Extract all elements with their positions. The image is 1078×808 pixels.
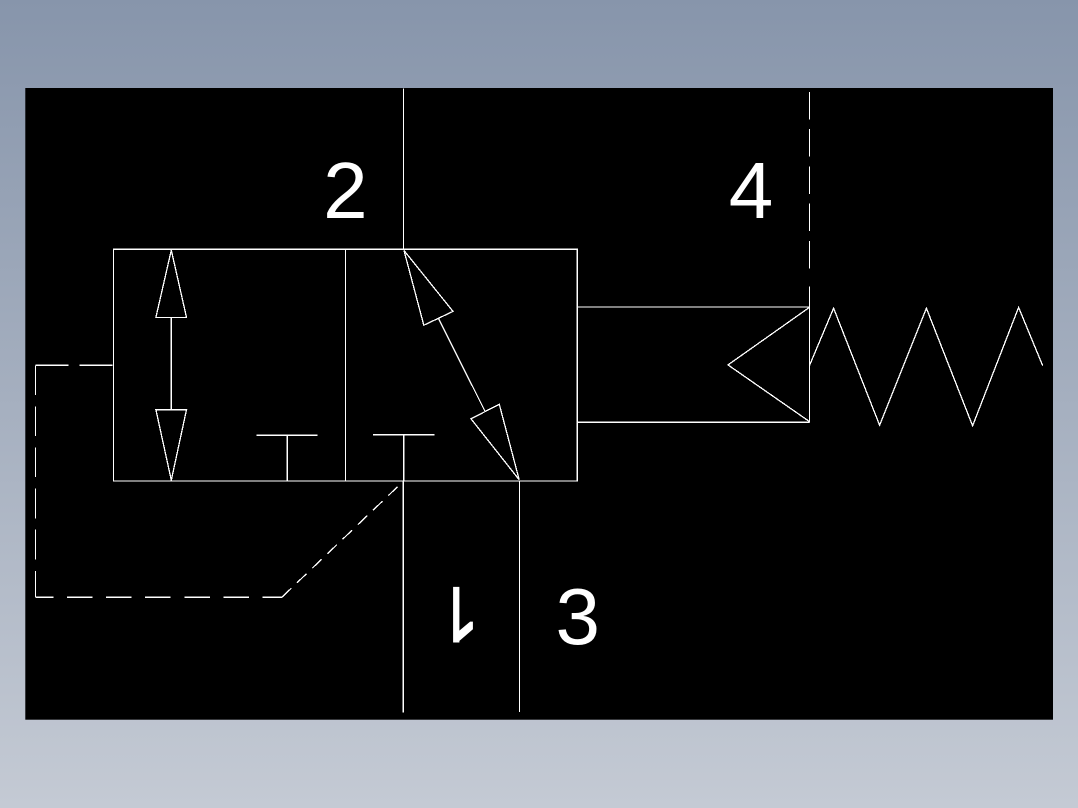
pilot dashed line: diagonal segment	[282, 481, 404, 597]
left-position arrowhead down	[156, 410, 187, 481]
return spring zigzag	[810, 307, 1043, 425]
left-position double-headed vertical arrow shaft	[170, 317, 172, 409]
blocked port T symbol right box	[373, 435, 435, 481]
valve position divider	[345, 249, 347, 481]
right-position diagonal arrow shaft	[438, 318, 485, 411]
svg-text:3: 3	[556, 572, 601, 661]
svg-text:4: 4	[729, 146, 774, 235]
valve body outer rectangle	[113, 249, 577, 481]
pilot triangle (points left)	[728, 307, 810, 421]
port 2 line (top)	[403, 89, 405, 250]
svg-text:2: 2	[323, 146, 368, 235]
diagonal arrowhead lower	[471, 404, 519, 480]
port 3 line (bottom)	[519, 481, 521, 712]
pilot dashed line: horizontal upper segment	[35, 364, 113, 366]
diagonal arrowhead upper	[404, 251, 453, 326]
drawing canvas (black)	[25, 88, 1053, 720]
port 1 line (bottom)	[402, 481, 404, 713]
actuator box top line	[577, 306, 810, 308]
blocked port T symbol left box	[256, 435, 317, 481]
pilot dashed line: vertical left segment	[34, 365, 36, 597]
port label 1 (rotated 180, drawn as path)	[453, 587, 473, 643]
actuator box bottom line	[577, 421, 810, 423]
port 4 solid tail / actuator base	[809, 287, 811, 423]
pilot dashed line: horizontal lower segment	[35, 596, 282, 598]
port 4 dashed line	[809, 92, 811, 269]
left-position arrowhead up	[156, 250, 187, 317]
